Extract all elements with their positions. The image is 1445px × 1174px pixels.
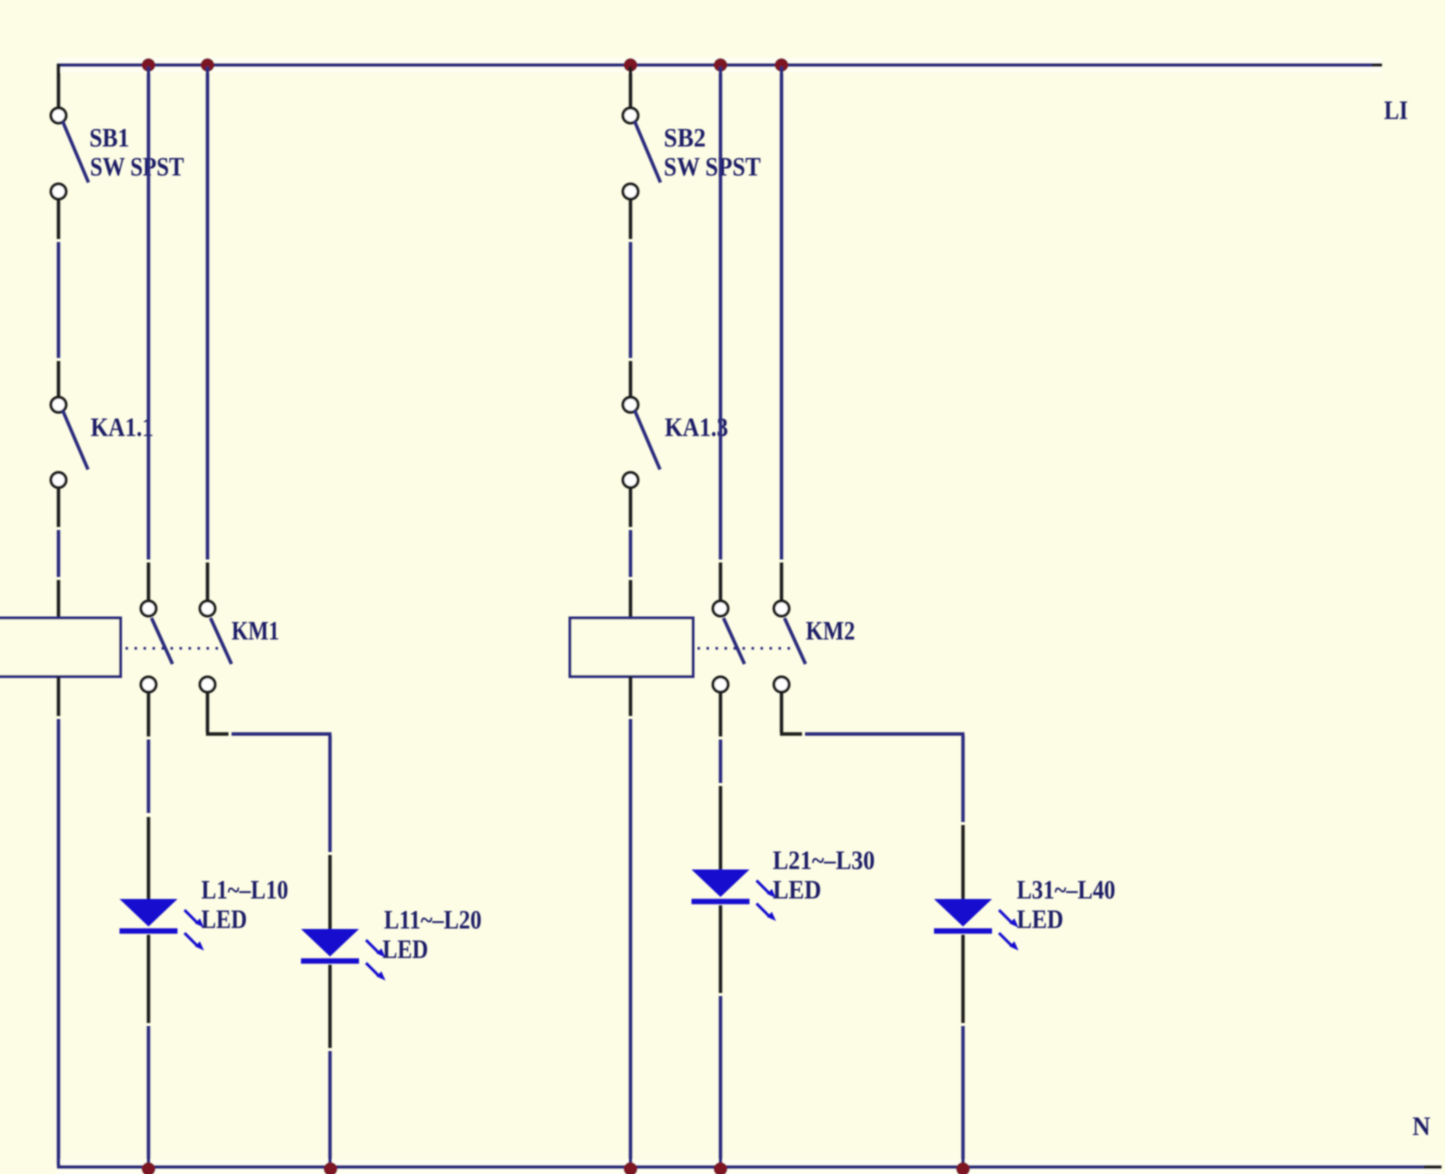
contact KA1.1 top pin xyxy=(57,361,60,399)
wire LED L21-L30 to bottom rail xyxy=(719,996,722,1166)
coil KM1 top pin xyxy=(57,580,60,618)
junction on top rail (KM2 contact a feed) xyxy=(714,58,728,72)
LED L1-L10 anode pin xyxy=(147,817,150,899)
switch SB2 blade xyxy=(635,121,661,183)
contact KM1.b bottom terminal xyxy=(200,677,215,692)
wire jog to LED L11-L20 column xyxy=(232,732,332,735)
wire (top rail right end tip) xyxy=(1372,63,1382,66)
svg-text:LED: LED xyxy=(383,935,429,964)
wire KA1.3 to coil KM2 xyxy=(629,530,632,577)
contact KM1.a top terminal xyxy=(141,601,156,616)
svg-text:KM2: KM2 xyxy=(806,617,855,646)
wire SB2 to KA1.3 xyxy=(629,242,632,358)
wire SB1 to KA1.1 xyxy=(57,242,60,358)
wire top rail to KM2 contact a xyxy=(719,67,722,560)
wire elbow KM2.b pin horizontal xyxy=(780,732,802,735)
contactor KM2 linkage (dotted) xyxy=(698,647,794,650)
junction on bottom rail (LED L21-L30) xyxy=(714,1162,728,1174)
svg-text:N: N xyxy=(1412,1112,1430,1141)
svg-text:KA1.1: KA1.1 xyxy=(91,413,154,442)
switch SB2 bottom pin xyxy=(629,198,632,239)
switch SB2 top terminal xyxy=(623,108,638,123)
switch SB1 top terminal xyxy=(51,108,66,123)
wire KA1.1 to coil KM1 xyxy=(57,530,60,577)
svg-text:SW SPST: SW SPST xyxy=(664,153,761,182)
svg-text:KA1.3: KA1.3 xyxy=(665,413,729,442)
top power rail LI (horizontal wire) xyxy=(57,63,1372,66)
contact KM2.a top terminal xyxy=(713,601,728,616)
svg-text:SB1: SB1 xyxy=(89,124,129,153)
contact KM1.a blade xyxy=(152,618,173,664)
contact KA1.3 bottom terminal xyxy=(623,473,638,488)
LED L21~L30 symbol xyxy=(692,870,777,922)
contact KM2.a top pin xyxy=(719,563,722,603)
coil KM2 bottom pin xyxy=(629,677,632,717)
junction on bottom rail (LED L31-L40) xyxy=(956,1162,970,1174)
LED L11~L20 symbol xyxy=(301,929,386,981)
wire top rail to KM1 contact b xyxy=(206,67,209,560)
wire coil KM1 to bottom rail xyxy=(57,719,60,1166)
junction on bottom rail (LED L11-L20) xyxy=(324,1162,338,1174)
contact KM2.b top pin xyxy=(780,563,783,603)
contact KM1.a top pin xyxy=(147,563,150,603)
wire jog to LED L31-L40 column xyxy=(805,732,965,735)
contact KM2.a bottom terminal xyxy=(713,677,728,692)
svg-text:L1~–L10: L1~–L10 xyxy=(201,876,288,905)
wire (rail to SB2 pin) xyxy=(629,67,632,110)
switch SB2 bottom terminal xyxy=(623,184,638,199)
switch SB1 blade xyxy=(63,121,89,183)
relay coil KM2 body xyxy=(570,618,693,677)
switch SB1 bottom pin xyxy=(57,198,60,239)
wire down LED L31-L40 column xyxy=(961,736,964,823)
switch SB1 bottom terminal xyxy=(51,184,66,199)
wire top rail to KM2 contact b xyxy=(780,67,783,560)
wire (rail corner to SB1 pin) xyxy=(57,64,60,110)
contact KA1.1 bottom pin xyxy=(57,486,60,527)
junction on top rail (KM1 contact a feed) xyxy=(142,58,156,72)
LED L11-L20 cathode pin xyxy=(328,965,331,1048)
svg-text:LED: LED xyxy=(773,876,822,905)
contactor KM1 linkage (dotted) xyxy=(126,647,221,650)
wire KM1.a to LED L1-L10 xyxy=(147,740,150,814)
LED L31~L40 symbol xyxy=(934,899,1019,951)
contact KM1.b bottom pin xyxy=(206,691,209,733)
contact KM1.b blade xyxy=(211,618,232,664)
LED L31-L40 cathode pin xyxy=(961,935,964,1023)
contact KM2.b bottom terminal xyxy=(774,677,789,692)
svg-text:SW SPST: SW SPST xyxy=(90,153,184,182)
contact KA1.3 bottom pin xyxy=(629,486,632,527)
svg-text:LI: LI xyxy=(1384,96,1408,125)
LED L21-L30 anode pin xyxy=(719,786,722,870)
contact KM2.a bottom pin xyxy=(719,691,722,737)
contact KM2.b top terminal xyxy=(774,601,789,616)
wire coil KM2 to bottom rail xyxy=(629,719,632,1166)
wire down LED L11-L20 column xyxy=(328,736,331,853)
contact KA1.3 blade xyxy=(635,410,661,470)
junction on top rail (KM2 contact b feed) xyxy=(775,58,789,72)
contact KA1.1 blade xyxy=(63,410,89,470)
svg-text:LED: LED xyxy=(1017,905,1064,934)
LED L21-L30 cathode pin xyxy=(719,905,722,993)
contact KM2.a blade xyxy=(724,618,745,664)
contact KM1.a bottom pin xyxy=(147,691,150,737)
wire LED L1-L10 to bottom rail xyxy=(147,1026,150,1166)
LED L11-L20 anode pin xyxy=(328,855,331,929)
wire elbow KM1.b pin horizontal xyxy=(206,732,229,735)
contact KM1.b top pin xyxy=(206,563,209,603)
wire (bottom rail right end tip) xyxy=(1424,1165,1442,1168)
contact KM1.a bottom terminal xyxy=(141,677,156,692)
junction on bottom rail (coil KM2) xyxy=(624,1162,638,1174)
contact KM1.b top terminal xyxy=(200,601,215,616)
wire top rail to KM1 contact a xyxy=(147,67,150,560)
LED L31-L40 anode pin xyxy=(961,825,964,899)
contact KM2.b blade xyxy=(785,618,806,664)
contact KM2.b bottom pin xyxy=(780,691,783,733)
svg-text:L11~–L20: L11~–L20 xyxy=(384,906,482,935)
junction on top rail (SB2 feed) xyxy=(624,58,638,72)
LED L1-L10 cathode pin xyxy=(147,935,150,1023)
contact KA1.3 top terminal xyxy=(623,397,638,412)
junction on bottom rail (LED L1-L10) xyxy=(142,1162,156,1174)
LED L1~L10 symbol xyxy=(120,899,205,951)
svg-text:L21~–L30: L21~–L30 xyxy=(773,846,875,875)
contact KA1.1 top terminal xyxy=(51,397,66,412)
svg-text:KM1: KM1 xyxy=(232,617,280,646)
bottom neutral rail N (horizontal wire) xyxy=(57,1165,1424,1168)
contact KA1.3 top pin xyxy=(629,361,632,399)
relay coil KM1 body xyxy=(0,618,121,677)
wire LED L11-L20 to bottom rail xyxy=(328,1051,331,1166)
svg-text:SB2: SB2 xyxy=(664,124,706,153)
svg-text:LED: LED xyxy=(201,905,247,934)
svg-text:L31~–L40: L31~–L40 xyxy=(1017,876,1116,905)
wire KM2.a to LED L21-L30 xyxy=(719,740,722,784)
junction on top rail (KM1 contact b feed) xyxy=(201,58,215,72)
contact KA1.1 bottom terminal xyxy=(51,473,66,488)
coil KM1 bottom pin xyxy=(57,677,60,717)
coil KM2 top pin xyxy=(629,580,632,618)
wire LED L31-L40 to bottom rail xyxy=(961,1026,964,1166)
